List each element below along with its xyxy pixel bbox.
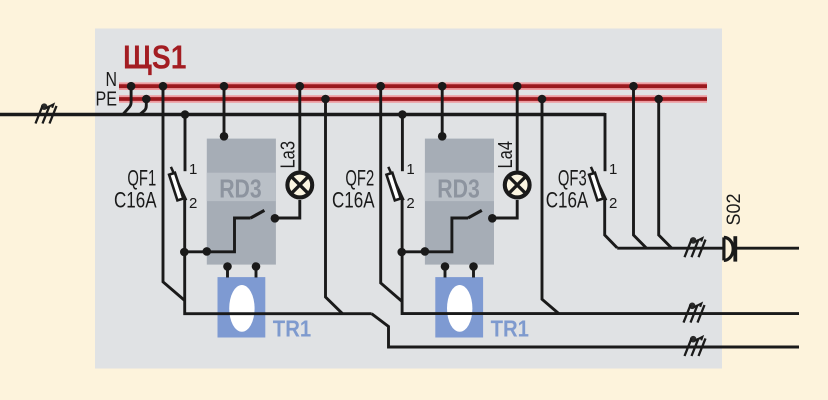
exit cable line 1 to socket S02 [617,247,799,250]
cable mark exit line 1 [685,237,706,257]
svg-text:1: 1 [406,161,414,178]
junction dots N bus [127,82,638,91]
svg-text:PE: PE [96,89,118,111]
lamp La3 [287,173,312,198]
wire PE feed group 2 [542,99,559,314]
relay switch blade (group 1) [251,210,265,218]
wire group-1 cable dive to exit level [372,314,799,347]
title descender trim [120,73,144,82]
svg-text:2: 2 [406,195,414,212]
wire QF1 output to relay switch [184,218,250,252]
relay RD3 (group 1) body [207,139,276,265]
svg-text:RD3: RD3 [219,173,262,203]
relay switch blade (group 2) [468,210,482,218]
wire lamp La4 to N bus [516,86,519,170]
breaker QF2 [386,167,403,200]
wire N feed group 3 [634,86,647,248]
wire RD3 to TR1 terminals (group 2) [445,267,474,278]
panel enclosure ЩS1 [95,29,722,369]
relay bottom terminal dots [223,262,478,271]
wire N feed group 2 [381,86,402,301]
breaker QF3 [589,167,606,200]
svg-text:2: 2 [609,195,617,212]
transformer TR1 (group 2) body [435,277,483,337]
junction dots relay/breaker outputs [180,247,429,256]
cable mark exit line 3 [685,336,706,356]
wire RD3 to TR1 terminals (group 1) [228,267,257,278]
breaker QF1 [169,167,186,200]
svg-text:ЩS1: ЩS1 [123,39,187,76]
wire PE feed group 1 [326,99,343,314]
svg-text:C16A: C16A [332,188,375,213]
PE bus bar [119,95,707,103]
wire relay contact to lamp (group 1) [275,200,300,218]
junction dots L line [181,110,407,119]
svg-text:C16A: C16A [546,188,589,213]
wire relay contact to lamp (group 2) [492,200,517,218]
lamp La4 [505,173,530,198]
wire relay RD3 coil to N bus (group 2) [441,86,444,138]
wire QF1 output down [185,200,372,314]
wire lamp La3 to N bus [298,86,301,170]
svg-text:TR1: TR1 [491,315,529,341]
transformer TR1 (group 1) body [218,277,266,337]
wire QF3 output to exit line 1 [605,200,618,248]
relay fixed contact dots [271,214,497,223]
svg-text:La3: La3 [277,141,300,169]
wire QF2 output to relay switch [402,218,468,252]
wire N feed group 1 [163,86,185,300]
svg-text:C16A: C16A [114,188,157,213]
svg-text:TR1: TR1 [273,315,311,341]
svg-text:2: 2 [189,195,197,212]
N bus bar [119,82,707,90]
wire QF3 input from L line [604,113,607,171]
svg-text:La4: La4 [494,141,517,169]
svg-text:1: 1 [189,161,197,178]
incoming L line [0,113,605,116]
tap wire from N bus to incoming line [123,86,131,114]
svg-text:RD3: RD3 [437,173,480,203]
junction dots PE bus [142,95,663,104]
socket S02 [724,236,735,261]
tap wire from PE bus to incoming line [140,99,146,114]
svg-text:1: 1 [609,161,617,178]
wire QF1 input [184,115,187,172]
cable mark exit line 2 [684,303,705,323]
wire QF2 input [401,115,404,172]
relay coil terminal dots [220,132,447,141]
cable mark incoming line [36,103,57,123]
wire relay RD3 coil to N bus (group 1) [223,86,226,138]
relay RD3 (group 2) body [425,139,494,265]
wire QF2 output down and exit line 2 [402,200,799,314]
svg-text:S02: S02 [724,194,745,226]
wire PE feed group 3 [659,99,672,248]
